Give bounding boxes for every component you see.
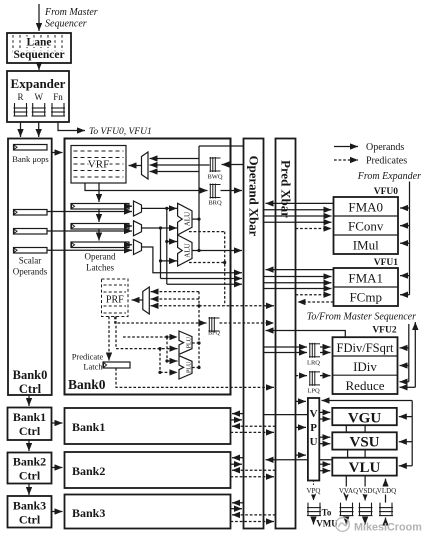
predicate wire PRF to BPQ: [115, 317, 207, 324]
wire LRQ to FDiv a: [320, 346, 331, 348]
wire VPQ to VMU: [313, 517, 315, 525]
wire latch1 to latch2: [98, 229, 100, 241]
predicate wire to FCmp: [296, 294, 332, 296]
queue R in Expander: [14, 103, 28, 116]
svg-text:FCmp: FCmp: [349, 290, 382, 305]
svg-text:VFU2: VFU2: [372, 326, 397, 336]
wire Operand Xbar to VPU: [264, 414, 308, 416]
svg-text:MikesICroom: MikesICroom: [354, 522, 422, 534]
predicate wire Pred Xbar to Bank2: [232, 469, 276, 471]
predicate wire to LPQ: [296, 375, 308, 377]
svg-text:PLU: PLU: [186, 336, 192, 348]
box VFU1: [334, 268, 399, 306]
latch Bank uops: [14, 145, 48, 151]
wire BPQ to Pred Xbar: [220, 322, 275, 324]
svg-text:To: To: [322, 508, 332, 518]
svg-text:R: R: [17, 92, 23, 102]
wire LRQ to FDiv b: [320, 352, 331, 354]
queue Fn in Expander: [51, 103, 65, 116]
box VLU: [332, 458, 397, 476]
svg-text:Predicates: Predicates: [366, 156, 407, 167]
wire VFU2 result to Operand Xbar: [266, 331, 346, 338]
box Expander: [7, 71, 69, 122]
register file VRF: [71, 146, 126, 184]
wire PLU1 output: [192, 367, 199, 369]
svg-text:Predicate: Predicate: [72, 352, 104, 362]
wire operand to FMA1: [264, 276, 332, 278]
svg-text:LRQ: LRQ: [307, 360, 320, 367]
box VFU0: [334, 197, 399, 254]
bus from Expander: [409, 182, 411, 295]
wire Expander R to Bank ctrl column: [20, 122, 22, 137]
wire VPU to VLU: [319, 463, 330, 465]
predicate wire Bank3 to Pred Xbar: [231, 521, 275, 523]
predicate wire ALU1 down-collector: [189, 262, 225, 264]
svg-text:From Expander: From Expander: [357, 171, 421, 182]
mux operand 0: [134, 201, 142, 216]
predicate wire to FConv: [296, 228, 332, 230]
box Bank2: [65, 452, 231, 488]
predicate wire to mux middle: [151, 298, 200, 300]
predicate wire Bank1 to Pred Xbar: [231, 431, 275, 433]
wire BWQ to mux: [150, 164, 210, 166]
svg-text:BPQ: BPQ: [208, 331, 220, 337]
predicate wire to PLU0 input A: [123, 336, 178, 338]
wire operand to LRQ a: [264, 346, 308, 348]
wire bus into VGU: [399, 416, 412, 418]
wire Bank2 Ctrl to Bank2: [52, 467, 63, 469]
svg-text:FConv: FConv: [348, 219, 384, 234]
wire ALU1 output: [192, 250, 199, 252]
wire PLU0 output: [192, 342, 199, 344]
svg-text:Bank1: Bank1: [13, 410, 46, 424]
mux operand 1: [134, 221, 142, 236]
wire Bank1 Ctrl to Bank2 Ctrl: [28, 440, 30, 451]
wire scalar1 to mux1: [47, 230, 132, 232]
wire LPQ to VFU2: [320, 375, 331, 377]
wire operand to VFU0: [264, 215, 332, 217]
watermark logo: [336, 518, 350, 532]
wire operand to FMA0: [264, 209, 332, 211]
wire branch to ALU1 input A: [166, 208, 168, 241]
operand latch 2: [71, 242, 129, 248]
box Bank3 Ctrl: [8, 496, 52, 528]
svg-text:V: V: [310, 408, 318, 420]
wire operand to FConv: [264, 221, 332, 223]
wire bus into IDiv: [400, 365, 409, 367]
svg-text:Bank1: Bank1: [72, 420, 105, 434]
wire bus into FDiv/FSqrt: [400, 347, 409, 349]
queue BWQ: [210, 157, 221, 172]
queue VVAQ: [340, 503, 354, 516]
wire branch to ALU1 input B: [160, 228, 162, 261]
box Bank1: [65, 408, 231, 444]
wire VLU result to Operand Xbar: [266, 459, 333, 461]
wire Bank1 to Operand Xbar: [231, 419, 243, 421]
wire VPU to VLU: [319, 470, 330, 472]
bus from master sequencer to VFU2: [408, 324, 410, 382]
wire latch1 to mux1: [129, 225, 132, 227]
wire ALU0 output: [192, 218, 199, 220]
svg-text:VLDQ: VLDQ: [377, 487, 396, 495]
wire VPU to VGU: [319, 418, 330, 420]
wire VRF read to BRQ: [85, 183, 208, 191]
svg-text:VLU: VLU: [349, 460, 381, 476]
svg-text:IMul: IMul: [353, 238, 379, 253]
crossbar Operand Xbar: [244, 139, 264, 529]
predicate branch to PLU1 input B: [159, 349, 161, 373]
wire Operand Xbar to Bank3: [232, 502, 244, 504]
svg-text:Ctrl: Ctrl: [19, 469, 41, 483]
wire VSU to VLU b: [364, 450, 366, 458]
svg-text:To VFU0, VFU1: To VFU0, VFU1: [89, 127, 152, 137]
wire Bank0 Ctrl to Bank1 Ctrl: [28, 395, 30, 406]
wire VGU to VSU b: [364, 425, 366, 432]
svg-text:FMA1: FMA1: [348, 271, 383, 286]
wire Bank uops to Bank0: [52, 152, 63, 154]
ALU lower: [178, 235, 192, 266]
legend arrow predicates: [334, 159, 358, 161]
svg-text:Latches: Latches: [86, 263, 114, 273]
predicate wire latch to Pred Xbar: [116, 368, 274, 387]
svg-text:P: P: [310, 422, 317, 434]
box Bank3: [65, 495, 231, 529]
PLU lower: [179, 356, 192, 379]
queue LPQ: [309, 371, 320, 386]
queue VPQ: [307, 503, 321, 516]
svg-text:IDiv: IDiv: [353, 359, 377, 374]
svg-text:Scalar: Scalar: [19, 256, 42, 266]
wire expander bus into VFU at y=275.6: [400, 275, 410, 277]
predicate vertical result bus: [198, 292, 200, 368]
wire mux1 to ALU0 input B: [142, 227, 178, 229]
wire from master sequencer into Lane Sequencer: [38, 4, 40, 31]
predicate wire Pred Xbar to VPU c: [296, 454, 307, 456]
queue VLDQ: [379, 503, 393, 516]
wire mux2 operand to Operand Xbar: [142, 247, 243, 273]
svg-text:VSDQ: VSDQ: [358, 487, 377, 495]
ALU upper: [178, 203, 192, 235]
svg-text:U: U: [310, 436, 318, 448]
svg-text:Lane: Lane: [27, 37, 52, 49]
svg-text:PRF: PRF: [106, 295, 124, 306]
svg-text:BRQ: BRQ: [208, 200, 222, 207]
box VSU: [332, 432, 397, 449]
wire feedback into VPU: [322, 400, 413, 402]
svg-text:VVAQ: VVAQ: [339, 487, 358, 495]
svg-text:ALU: ALU: [184, 243, 192, 257]
queue W in Expander: [32, 103, 46, 116]
wire expander bus into VFU at y=208: [400, 207, 410, 209]
wire operand to FMA1 b: [264, 282, 332, 284]
svg-text:Ctrl: Ctrl: [19, 382, 42, 396]
svg-text:Operand: Operand: [85, 252, 116, 262]
svg-text:VSU: VSU: [349, 435, 379, 451]
wire bus into Reduce: [400, 381, 409, 383]
svg-text:Bank μops: Bank μops: [12, 154, 48, 164]
svg-text:VMU: VMU: [316, 519, 338, 529]
bus to/from master sequencer: [414, 322, 416, 387]
predicate wire to mux top: [151, 291, 200, 293]
bus down right side to VGU/VSU/VLU: [411, 401, 413, 466]
predicate vertical collector to Pred Xbar line: [224, 232, 226, 306]
svg-text:VFU1: VFU1: [374, 258, 399, 268]
wire BRQ to Operand Xbar: [221, 190, 243, 192]
svg-text:VPQ: VPQ: [306, 487, 320, 495]
wire bus into VSU: [399, 441, 412, 443]
box Bank0 Ctrl column: [8, 139, 52, 396]
svg-text:W: W: [34, 92, 43, 102]
svg-text:Bank0: Bank0: [13, 368, 48, 382]
svg-text:Pred Xbar: Pred Xbar: [279, 160, 293, 218]
wire scalar2 to mux2: [47, 249, 132, 251]
legend arrow operands: [334, 146, 358, 148]
wire Bank2 Ctrl to Bank3 Ctrl: [28, 484, 30, 496]
box Bank2 Ctrl: [8, 453, 52, 484]
latch scalar operand 1: [14, 229, 48, 235]
wire operand forward 2: [166, 242, 168, 285]
wire latch2 to mux2: [129, 244, 132, 246]
wire bus into VLU: [399, 465, 412, 467]
wire latch0 to latch1: [98, 209, 100, 222]
wire master sequencer bus into Reduce: [400, 386, 416, 388]
box VGU: [332, 408, 397, 425]
queue BPQ: [209, 317, 220, 332]
svg-text:Ctrl: Ctrl: [19, 513, 41, 527]
svg-text:Sequencer: Sequencer: [45, 19, 87, 30]
wire expander bus into VFU at y=243.2: [400, 242, 410, 244]
wire ALU1 result to Operand Xbar: [199, 250, 242, 252]
svg-text:Operands: Operands: [366, 142, 404, 153]
wire FMA1 result to Operand Xbar: [266, 269, 334, 271]
wire VSDQ to VMU: [364, 517, 366, 525]
svg-text:VFU0: VFU0: [374, 187, 399, 197]
predicate wire Pred Xbar to Bank1: [232, 425, 276, 427]
wire Operand Xbar to BWQ: [222, 164, 244, 166]
svg-text:Operands: Operands: [13, 267, 48, 277]
predicate wire ALU0 down-collector: [189, 231, 225, 233]
wire expander bus into FCmp: [400, 294, 410, 296]
wire mux to VRF: [129, 165, 142, 167]
mux PRF writeback: [143, 287, 150, 314]
wire latch0 to mux0: [129, 205, 132, 207]
svg-text:Sequencer: Sequencer: [13, 49, 64, 61]
wire mux to PRF: [132, 299, 143, 301]
wire VVAQ to VMU: [345, 517, 347, 525]
mux VRF writeback: [142, 152, 149, 179]
svg-text:To/From Master Sequencer: To/From Master Sequencer: [307, 312, 416, 323]
box Lane Sequencer: [7, 33, 71, 63]
wire VLDQ to VLU: [385, 479, 387, 503]
wire ALU result to mux top: [150, 158, 200, 160]
box VPU: [308, 398, 319, 481]
predicate wire to mux bottom: [151, 305, 200, 307]
box Bank1 Ctrl: [8, 408, 52, 441]
queue BRQ: [210, 184, 221, 199]
wire VPU to VPQ: [313, 481, 315, 501]
svg-text:PLU: PLU: [186, 361, 192, 373]
predicate wire to PLU0 input B: [116, 348, 178, 350]
operand latch 0: [71, 204, 129, 210]
wire Bank3 Ctrl to Bank3: [52, 511, 63, 513]
wire VLU to VVAQ: [345, 476, 347, 501]
queue LRQ: [309, 343, 320, 358]
crossbar Pred Xbar: [276, 139, 296, 529]
wire Bank1 Ctrl to Bank1: [52, 422, 63, 424]
wire ALU result to mux bottom: [150, 171, 200, 173]
PLU upper: [179, 331, 192, 354]
predicate wire Pred Xbar to Bank3: [232, 514, 276, 516]
svg-text:Fn: Fn: [53, 92, 63, 102]
box Bank0 lane datapath: [65, 139, 231, 395]
wire VPU to VSU: [319, 443, 330, 445]
wire VRF to operand latch 0: [98, 183, 100, 202]
svg-text:VRF: VRF: [88, 159, 109, 171]
wire Lane Sequencer to Expander: [38, 63, 40, 70]
svg-text:Bank3: Bank3: [72, 506, 105, 520]
wire FMA0 result to Operand Xbar: [266, 202, 334, 204]
operand latch 1: [71, 224, 129, 230]
svg-text:Ctrl: Ctrl: [19, 424, 41, 438]
svg-text:ALU: ALU: [184, 212, 192, 226]
queue VSDQ: [359, 503, 373, 516]
wire mux0 to ALU0 input A: [142, 207, 178, 209]
svg-text:Bank0: Bank0: [68, 377, 106, 392]
box VFU2: [333, 337, 398, 394]
wire vertical ALU result bus: [198, 146, 200, 251]
latch scalar operand 0: [14, 210, 48, 216]
predicate wire Pred Xbar to VPU b: [296, 426, 307, 428]
wire expander bus into VFU at y=225.6: [400, 225, 410, 227]
svg-text:BWQ: BWQ: [207, 174, 222, 181]
register file PRF: [102, 279, 129, 317]
svg-text:Operand Xbar: Operand Xbar: [247, 156, 261, 237]
svg-text:From Master: From Master: [44, 7, 98, 18]
latch predicate: [103, 362, 130, 368]
svg-text:Reduce: Reduce: [346, 378, 385, 393]
svg-text:Latch: Latch: [83, 362, 103, 372]
mux operand 2: [134, 240, 142, 255]
wire operand to FCmp: [264, 288, 332, 290]
predicate wire to Pred Xbar: [199, 305, 274, 307]
predicate branch to PLU1 input A: [166, 337, 168, 361]
wire VSU to VLU a: [347, 450, 349, 458]
svg-text:Bank2: Bank2: [72, 464, 105, 478]
svg-text:FMA0: FMA0: [348, 200, 383, 215]
wire VMU to VLDQ: [385, 518, 387, 527]
wire VPU to VSU: [319, 436, 330, 438]
predicate wire Bank2 to Pred Xbar: [231, 476, 275, 478]
svg-text:Bank3: Bank3: [13, 499, 46, 513]
predicate wire PRF to predicate latch: [108, 317, 110, 361]
wire writeback net to Operand Xbar: [199, 145, 243, 147]
predicate wire PRF down: [115, 317, 117, 349]
predicate wire Pred Xbar to VPU a: [296, 400, 307, 402]
wire Expander W to Bank ctrl column: [38, 122, 40, 137]
wire Expander Fn to VFUs: [58, 122, 85, 131]
wire VLU to VSDQ: [364, 476, 366, 501]
svg-text:LPQ: LPQ: [307, 388, 320, 395]
wire Bank3 to Operand Xbar: [231, 508, 243, 510]
predicate wire FCmp to Pred Xbar: [298, 301, 334, 303]
wire operand to LRQ b: [264, 352, 308, 354]
wire VGU to VSU a: [345, 425, 347, 432]
wire VPU to VGU: [319, 411, 330, 413]
wire Operand Xbar to Bank2: [232, 457, 244, 459]
svg-text:Bank2: Bank2: [13, 455, 46, 469]
svg-text:FDiv/FSqrt: FDiv/FSqrt: [337, 341, 394, 355]
wire scalar0 to mux0: [47, 211, 132, 213]
wire operand forward 1: [160, 261, 162, 279]
latch scalar operand 2: [14, 248, 48, 254]
svg-text:VGU: VGU: [348, 410, 382, 426]
svg-text:Expander: Expander: [11, 76, 66, 91]
wire Bank2 to Operand Xbar: [231, 463, 243, 465]
wire Operand Xbar to Bank1: [232, 413, 244, 415]
